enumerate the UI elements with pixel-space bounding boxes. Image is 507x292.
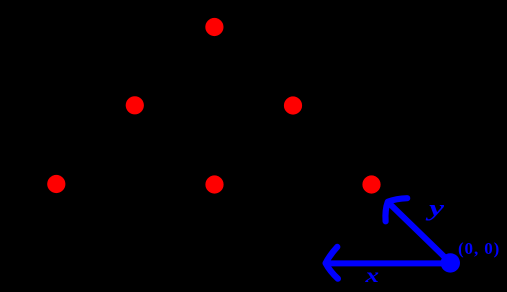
x axis arrowhead bbox=[326, 247, 338, 279]
lattice dot middle-left bbox=[126, 96, 144, 114]
lattice dot bottom-center bbox=[205, 175, 223, 193]
x axis shaft bbox=[328, 260, 450, 266]
y axis shaft bbox=[390, 204, 450, 262]
lattice dot bottom-right bbox=[362, 175, 380, 193]
y axis arrowhead bbox=[385, 198, 407, 221]
lattice dot middle-right bbox=[284, 96, 302, 114]
origin node (0,0) bbox=[441, 253, 460, 272]
lattice dot bottom-left bbox=[47, 175, 65, 193]
svg-text:x: x bbox=[364, 263, 379, 287]
svg-text:(0, 0): (0, 0) bbox=[458, 239, 500, 258]
lattice dot top bbox=[205, 18, 223, 36]
